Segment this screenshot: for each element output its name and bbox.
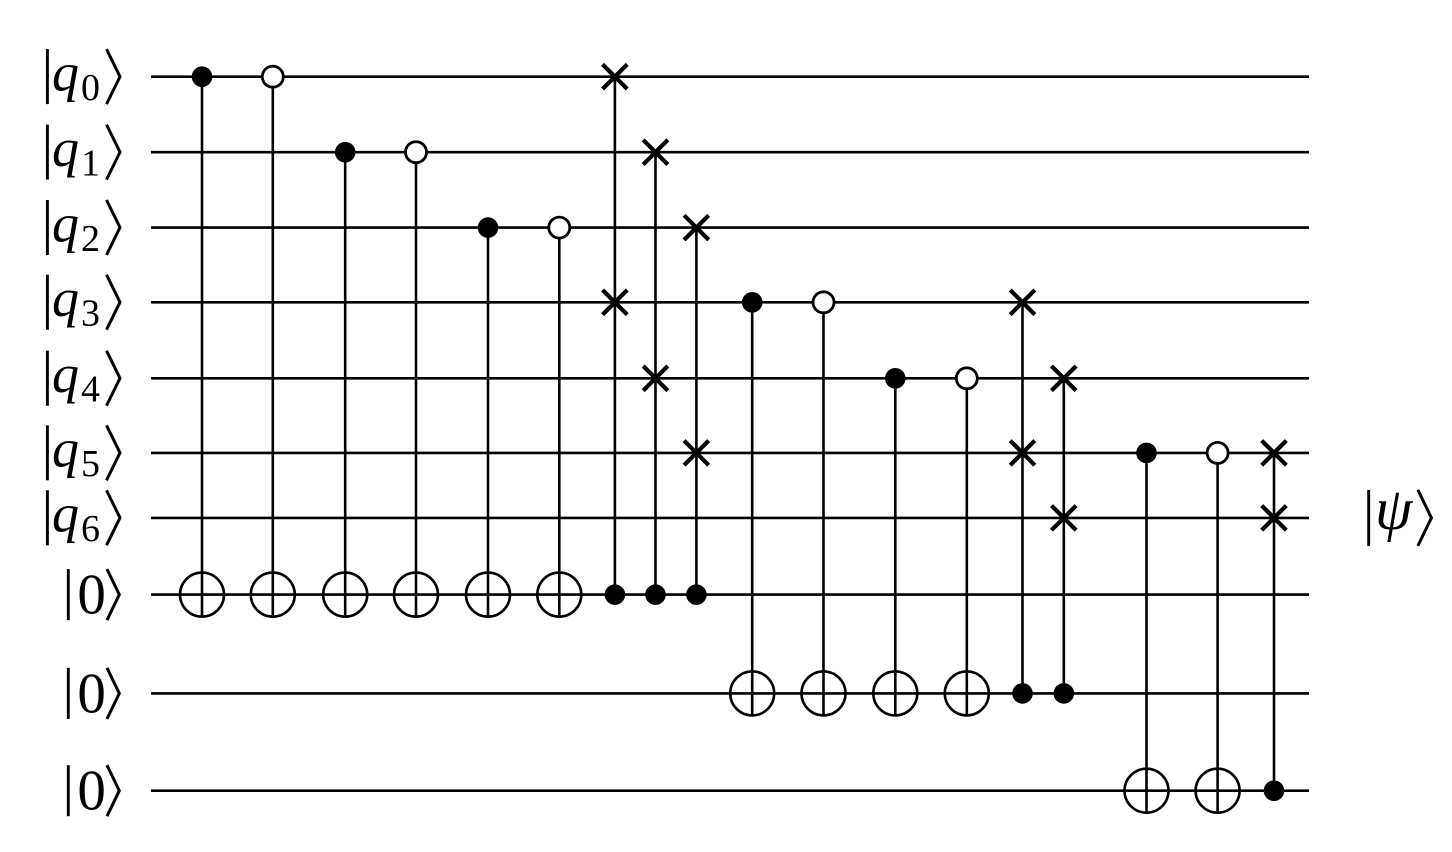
svg-text:5: 5 [81, 443, 100, 485]
label ket q2 [47, 193, 120, 260]
svg-text:0: 0 [81, 67, 100, 109]
CNOT target on a3, col 17 [1196, 769, 1240, 813]
svg-text:q: q [52, 118, 79, 178]
svg-text:0: 0 [77, 662, 106, 725]
svg-text:3: 3 [81, 293, 100, 335]
wire q4 [151, 377, 1309, 380]
wire q0 [151, 75, 1309, 78]
filled control dot on q4, col 12 [885, 368, 906, 389]
vertical connector col 15 (q4 to a2) [1063, 378, 1066, 693]
wire a2 [151, 692, 1309, 695]
wire q2 [151, 226, 1309, 229]
swap cross on q5, col 18 [1262, 441, 1287, 466]
vertical connector col 12 (q4 to a2) [894, 378, 897, 715]
CNOT target on a2, col 11 [802, 671, 846, 715]
label ket 0 (a3) [68, 760, 119, 823]
vertical connector col 14 (q3 to a2) [1021, 302, 1024, 693]
swap cross on q6, col 15 [1052, 506, 1077, 531]
wire q6 [151, 517, 1309, 520]
open control circle on q3, col 11 [813, 292, 834, 313]
label ket q0 [47, 42, 120, 109]
svg-text:4: 4 [81, 369, 100, 411]
wire q5 [151, 452, 1309, 455]
CNOT target on a1, col 5 [466, 573, 510, 617]
label ket q1 [47, 118, 120, 185]
swap cross on q5, col 9 [684, 441, 709, 466]
vertical connector col 13 (q4 to a2) [965, 378, 968, 715]
vertical connector col 10 (q3 to a2) [751, 302, 754, 715]
vertical connector col 6 (q2 to a1) [558, 228, 561, 617]
swap cross on q4, col 15 [1052, 366, 1077, 391]
swap control dot on a3, col 18 [1264, 780, 1285, 801]
svg-text:q: q [52, 42, 79, 102]
vertical connector col 16 (q5 to a3) [1145, 453, 1148, 813]
vertical connector col 2 (q0 to a1) [271, 77, 274, 617]
filled control dot on q3, col 10 [742, 292, 763, 313]
label ket q6 [47, 484, 120, 551]
open control circle on q2, col 6 [549, 217, 570, 238]
filled control dot on q0, col 1 [192, 66, 213, 87]
swap control dot on a2, col 14 [1012, 683, 1033, 704]
vertical connector col 9 (q2 to a1) [695, 228, 698, 595]
svg-text:0: 0 [77, 564, 106, 627]
label ket q3 [47, 268, 120, 335]
vertical connector col 17 (q5 to a3) [1216, 453, 1219, 813]
label ket psi (output) [1369, 476, 1432, 546]
swap cross on q3, col 7 [603, 290, 628, 315]
CNOT target on a3, col 16 [1125, 769, 1169, 813]
svg-text:1: 1 [81, 143, 100, 185]
swap cross on q4, col 8 [643, 366, 668, 391]
CNOT target on a2, col 13 [945, 671, 989, 715]
wire q3 [151, 301, 1309, 304]
svg-text:q: q [52, 193, 79, 253]
label ket q4 [47, 344, 120, 411]
svg-text:ψ: ψ [1375, 476, 1414, 542]
filled control dot on q1, col 3 [335, 142, 356, 163]
label ket q5 [47, 419, 120, 486]
CNOT target on a1, col 6 [537, 573, 581, 617]
swap control dot on a1, col 7 [605, 584, 626, 605]
filled control dot on q2, col 5 [478, 217, 499, 238]
vertical connector col 11 (q3 to a2) [822, 302, 825, 715]
CNOT target on a1, col 1 [180, 573, 224, 617]
wire a1 [151, 593, 1309, 596]
vertical connector col 8 (q1 to a1) [654, 152, 657, 594]
CNOT target on a1, col 2 [251, 573, 295, 617]
swap cross on q2, col 9 [684, 215, 709, 240]
open control circle on q1, col 4 [406, 142, 427, 163]
CNOT target on a2, col 12 [873, 671, 917, 715]
vertical connector col 5 (q2 to a1) [487, 228, 490, 617]
svg-text:6: 6 [81, 508, 100, 550]
svg-text:0: 0 [77, 760, 106, 823]
open control circle on q0, col 2 [262, 66, 283, 87]
swap cross on q5, col 14 [1010, 441, 1035, 466]
label ket 0 (a1) [68, 564, 119, 627]
swap cross on q6, col 18 [1262, 506, 1287, 531]
svg-text:2: 2 [81, 218, 100, 260]
svg-text:q: q [52, 268, 79, 328]
svg-text:q: q [52, 344, 79, 404]
open control circle on q4, col 13 [956, 368, 977, 389]
svg-text:q: q [52, 419, 79, 479]
vertical connector col 18 (q5 to a3) [1273, 453, 1276, 791]
swap cross on q1, col 8 [643, 140, 668, 165]
vertical connector col 1 (q0 to a1) [201, 77, 204, 617]
CNOT target on a1, col 3 [323, 573, 367, 617]
wire q1 [151, 151, 1309, 154]
CNOT target on a1, col 4 [394, 573, 438, 617]
swap control dot on a2, col 15 [1054, 683, 1075, 704]
swap cross on q0, col 7 [603, 64, 628, 89]
swap control dot on a1, col 8 [645, 584, 666, 605]
wire a3 [151, 789, 1309, 792]
label ket 0 (a2) [68, 662, 119, 725]
vertical connector col 4 (q1 to a1) [415, 152, 418, 616]
open control circle on q5, col 17 [1207, 442, 1228, 463]
swap control dot on a1, col 9 [686, 584, 707, 605]
swap cross on q3, col 14 [1010, 290, 1035, 315]
vertical connector col 3 (q1 to a1) [344, 152, 347, 616]
svg-text:q: q [52, 484, 79, 544]
filled control dot on q5, col 16 [1136, 443, 1157, 464]
vertical connector col 7 (q0 to a1) [614, 77, 617, 595]
CNOT target on a2, col 10 [730, 671, 774, 715]
